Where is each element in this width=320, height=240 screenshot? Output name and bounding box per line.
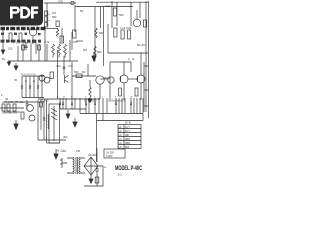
transistor Q5	[44, 77, 50, 83]
ground bus left	[8, 60, 78, 62]
wire vertical V15c	[89, 80, 91, 87]
wire mid bottom bus	[38, 98, 100, 100]
wire vertical V14	[57, 50, 59, 99]
transistor Q4 bar	[65, 75, 69, 83]
resistor input zigzag	[56, 29, 58, 37]
parts table rows	[118, 129, 141, 145]
wire Q6 collector up	[123, 62, 125, 75]
wire vertical V13	[35, 42, 37, 54]
wire vertical V16b	[109, 62, 111, 100]
transistor Q3	[39, 75, 45, 81]
wire bottom link	[38, 139, 66, 141]
resistor R10 zigzag	[94, 46, 96, 56]
transistor Q9	[27, 105, 34, 112]
transistor Q7 base bar	[137, 76, 139, 82]
resistor R3b	[73, 30, 77, 38]
AC plug P1	[60, 158, 67, 168]
label smudge row2	[1, 40, 42, 43]
wire link V17b	[102, 114, 104, 121]
wire secondary top bus	[75, 6, 133, 8]
resistor R14	[7, 104, 10, 111]
capacitor Cd2	[22, 45, 25, 50]
resistor R2	[121, 30, 124, 39]
wire vertical V5	[94, 7, 96, 62]
wire cluster bus2	[4, 111, 20, 113]
label MODEL P-40C	[115, 165, 142, 177]
tube V1 envelope	[71, 1, 74, 4]
wire vertical V7	[111, 1, 113, 28]
ground symbol G2	[92, 52, 96, 62]
wire T1 bottom	[47, 142, 61, 144]
transistor Q8	[108, 77, 114, 83]
wire vertical V3	[74, 5, 76, 32]
parts table divider	[123, 125, 125, 149]
T1 internal winding hatch	[51, 108, 57, 120]
resistor R19	[95, 177, 99, 183]
capacitor C15	[63, 67, 66, 69]
wire speaker bus 1	[60, 108, 86, 110]
transistor Q5b	[96, 76, 104, 84]
wire Q2 emitter	[32, 36, 34, 44]
terminal strip verticals	[60, 98, 143, 113]
PDF badge	[0, 0, 149, 198]
input jack cluster	[44, 11, 59, 36]
wire left edge drop	[2, 30, 4, 47]
wire B2 line	[72, 75, 96, 77]
capacitor C4	[43, 118, 46, 120]
bridge rectifier D1-D4	[84, 157, 98, 175]
wire bridge output	[84, 166, 103, 186]
T1 core line	[53, 106, 55, 141]
resistor R1c	[144, 20, 147, 27]
wire vertical right bottom	[96, 148, 98, 162]
wire horizontal H16	[110, 61, 131, 63]
resistor R3c	[60, 36, 64, 43]
wire right edge bus 1	[145, 1, 147, 112]
resistor R13	[135, 88, 138, 96]
T2 core	[76, 157, 77, 174]
wire vertical V6	[103, 7, 105, 67]
wire vertical V15d	[71, 62, 73, 99]
power transformer T2 primary	[73, 157, 74, 174]
wire vertical V15b	[87, 64, 89, 76]
wire top bus	[44, 2, 76, 4]
ground symbol G2b	[88, 98, 92, 103]
wire vertical V19b	[40, 100, 42, 130]
transistor Q1	[133, 19, 141, 27]
resistor R7 vertical zigzag	[64, 44, 67, 58]
wire Q8 base	[100, 78, 108, 80]
capacitor C4b	[26, 100, 29, 110]
wire B+ bus right	[108, 52, 148, 54]
wire vertical V4b	[44, 26, 46, 61]
resistor R5 vertical zigzag	[52, 44, 55, 58]
transistor Q6	[120, 75, 128, 83]
transistor Q6 base bar	[120, 76, 122, 82]
label under badge smudge row1	[1, 27, 46, 30]
ground symbol G6	[54, 149, 58, 159]
preamp cluster left	[0, 100, 103, 140]
wire vertical V12	[25, 42, 27, 50]
resistor R3	[128, 30, 131, 39]
resistor R11c zigzag	[89, 87, 91, 99]
wire vertical V16	[107, 24, 109, 53]
transistor Q10	[29, 115, 35, 121]
wire drop D2	[22, 44, 24, 61]
label smudge row3 marks	[1, 33, 41, 36]
output transformer T1 box	[49, 104, 60, 143]
transistor Q7	[137, 75, 145, 83]
resistor R16	[21, 112, 24, 119]
T2 leads	[67, 158, 85, 173]
wire cluster bus	[4, 101, 44, 103]
wire Q6-Q7 link	[128, 78, 138, 80]
wire vertical V8	[116, 2, 118, 26]
power transformer T2 secondary	[79, 157, 80, 174]
wire vertical V10	[139, 2, 141, 18]
wire cluster bus3	[0, 107, 24, 109]
ground symbol G3	[66, 110, 70, 119]
wire vertical V19	[43, 100, 45, 140]
wire right edge bus 3	[143, 62, 145, 112]
wire right edge bus 2	[147, 1, 149, 118]
resistor R3d zigzag	[95, 28, 97, 38]
ground arrow left	[1, 47, 5, 54]
resistor R18	[40, 102, 43, 107]
bridge cross	[84, 157, 98, 175]
resistor R8	[9, 33, 12, 41]
wire vertical V2	[61, 28, 63, 42]
capacitor Cd4	[38, 45, 41, 50]
wire vertical V9	[130, 2, 132, 26]
wire drop D3	[30, 44, 32, 61]
ground symbol G1	[14, 63, 18, 70]
capacitor C5	[96, 166, 99, 186]
wire Q7 emitter down	[140, 83, 142, 100]
fuse box F1	[104, 149, 125, 158]
cap bank verticals	[22, 76, 42, 97]
resistor R11b	[76, 74, 82, 78]
wire stub h	[76, 40, 83, 42]
parts table box	[118, 125, 141, 149]
resistor R1	[114, 8, 117, 16]
ground symbol G5	[73, 118, 77, 127]
capacitor C2 bars	[21, 86, 39, 88]
wire Q6 emitter down	[123, 83, 125, 100]
wire Q5b emitter down	[99, 84, 101, 99]
resistor R11	[50, 72, 54, 79]
wire Q5b collector	[104, 77, 110, 79]
wire T1 left lead	[46, 100, 48, 143]
cap bank plus marks	[25, 80, 43, 82]
resistor R6 vertical zigzag	[58, 44, 61, 58]
wire drop D1	[17, 46, 19, 61]
resistor R17	[2, 104, 5, 111]
resistor R1b	[114, 28, 117, 37]
ground symbol G4	[14, 120, 18, 130]
wire Q7 collector up	[140, 53, 142, 75]
capacitor C3 bars row	[59, 103, 132, 105]
wire Q1 collector	[136, 10, 138, 19]
wire top-right bus	[96, 1, 148, 3]
capacitor C1	[24, 44, 27, 48]
wire vertical V11	[69, 40, 71, 61]
transistor Q2	[29, 28, 37, 36]
wire drop D4	[38, 44, 40, 61]
wire vertical V16c	[130, 62, 132, 72]
resistor R12	[119, 88, 122, 96]
table cell text	[119, 125, 131, 149]
resistor R9	[19, 33, 22, 41]
wire vertical V17	[142, 114, 144, 121]
wire vertical V5b	[100, 7, 102, 29]
wire speaker bus 3	[97, 120, 144, 122]
wire vertical V1	[46, 3, 48, 26]
filter cap bank box top	[22, 75, 44, 77]
wire vertical V15	[63, 56, 65, 75]
right edge ticks	[144, 66, 148, 106]
labels: schematic small text	[1, 0, 146, 169]
resistor R15	[13, 104, 16, 111]
T1 winding	[48, 114, 49, 129]
ground symbol G7	[89, 179, 93, 184]
cap bank bottom bus	[22, 97, 44, 99]
wire speaker bus 2	[80, 113, 143, 115]
wire PSU feed vertical	[96, 114, 98, 163]
wire vertical V18	[37, 100, 39, 140]
wire drop D5	[46, 44, 48, 61]
ground arrow at bus start	[7, 62, 10, 66]
wire vertical V4	[71, 32, 73, 50]
